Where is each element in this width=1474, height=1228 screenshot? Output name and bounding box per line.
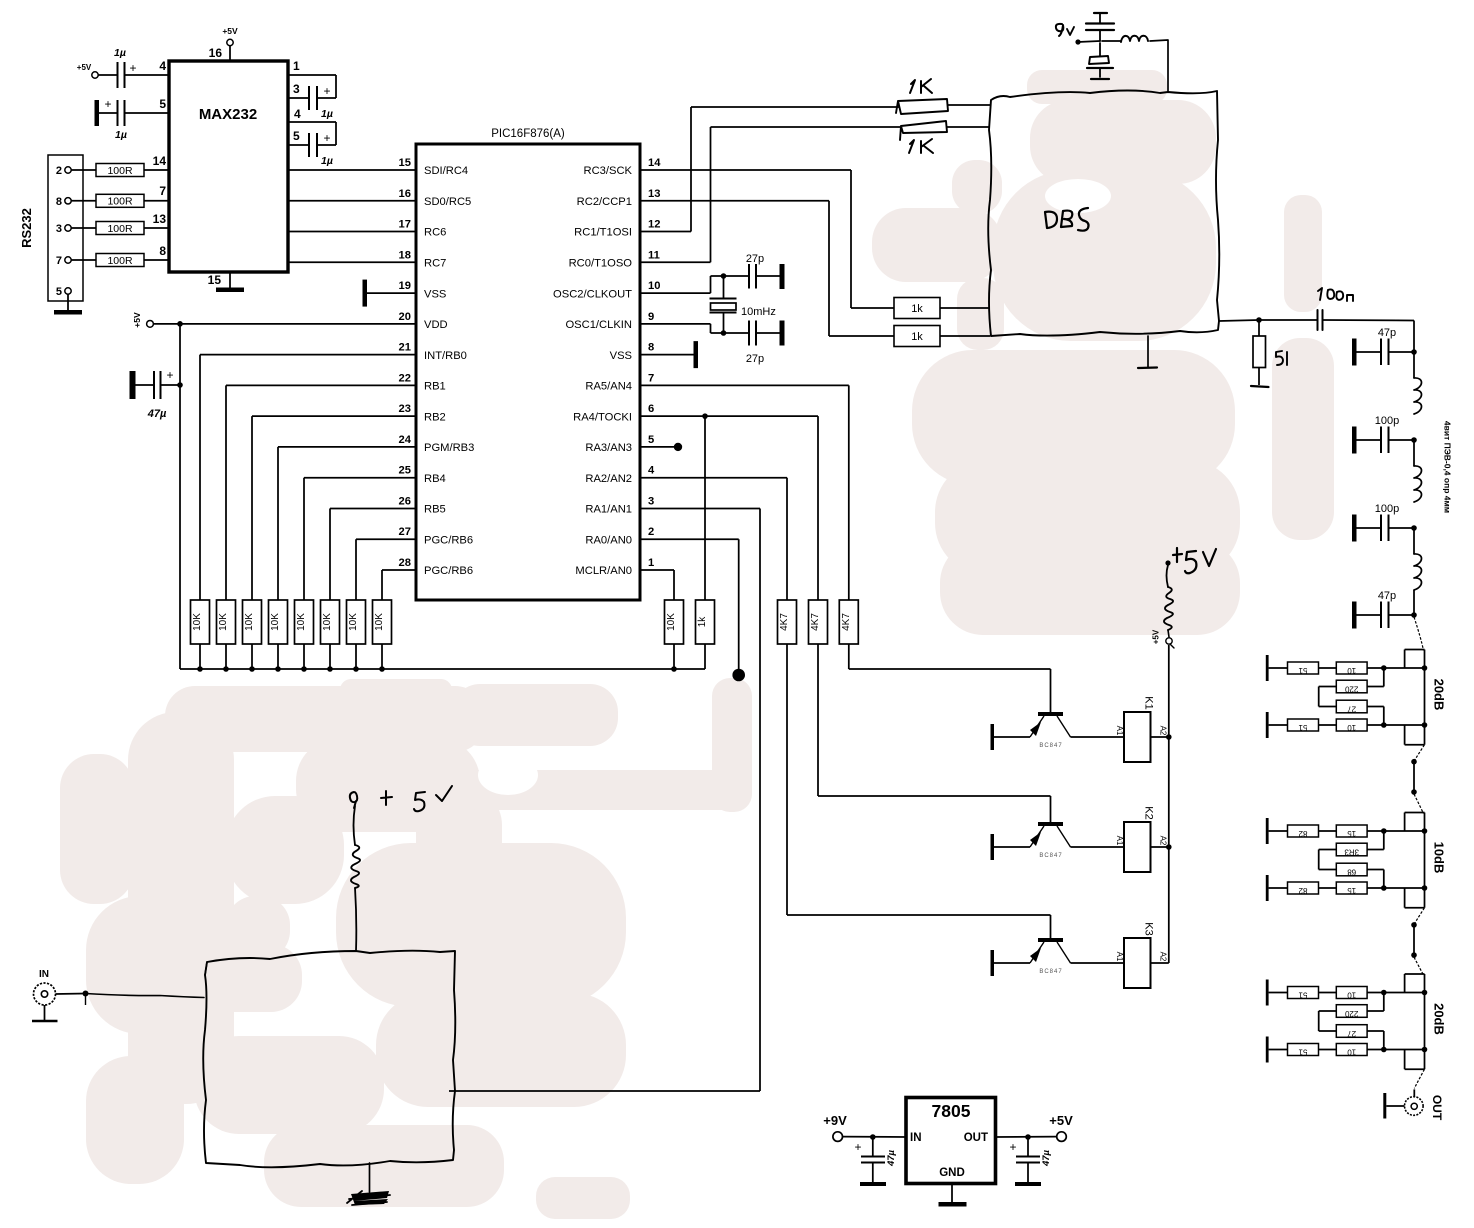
- power +5V hand-drawn label (relay bus): [1152, 548, 1217, 648]
- ground (attenuator 2 top): [1266, 818, 1269, 844]
- svg-text:47p: 47p: [1378, 327, 1396, 339]
- svg-text:1µ: 1µ: [114, 47, 126, 59]
- wire 100R to MAX232: [144, 169, 169, 171]
- node bus junction: [249, 666, 255, 672]
- svg-text:4K7: 4K7: [841, 613, 852, 631]
- wire to +5V bus: [225, 644, 227, 669]
- wire RS232 pin 7: [71, 259, 96, 261]
- resistor 10 (1 top): [1319, 662, 1368, 675]
- power +5V hand label (input module): [350, 786, 452, 811]
- svg-text:7: 7: [648, 372, 654, 384]
- svg-text:68: 68: [1347, 868, 1356, 877]
- wire +5V relay bus: [1168, 645, 1170, 963]
- wire 100R to MAX232: [144, 200, 169, 202]
- svg-text:100R: 100R: [107, 165, 133, 177]
- svg-text:47µ: 47µ: [147, 408, 167, 420]
- resistor 51 (DDS load): [1251, 320, 1287, 387]
- resistor 10K (R8): [373, 600, 392, 644]
- resistor 82 (2 bottom): [1269, 882, 1319, 895]
- IC U1 PIC16F876(A): [399, 128, 662, 600]
- ground (attenuator 1 bottom): [1266, 712, 1269, 738]
- wire PIC pin14 RC3/SCK to 1k: [640, 170, 894, 308]
- wire to +5V bus: [303, 644, 305, 669]
- ground (Q3 emitter): [991, 950, 995, 976]
- svg-text:4: 4: [294, 107, 301, 121]
- svg-text:220: 220: [1344, 685, 1358, 694]
- resistor 10 (1 bottom): [1319, 719, 1368, 732]
- resistor 10K (R4): [269, 600, 288, 644]
- svg-text:A2: A2: [1159, 836, 1168, 846]
- svg-text:A1: A1: [1115, 726, 1124, 736]
- switch blade (section 2 in): [1414, 794, 1424, 814]
- wire 100R to MAX232: [144, 259, 169, 261]
- wire chain to column: [1367, 1047, 1424, 1053]
- capacitor (9v top, hand): [1086, 13, 1114, 41]
- svg-text:4K7: 4K7: [779, 613, 790, 631]
- node bus junction: [223, 666, 229, 672]
- wire to +5V bus: [251, 644, 253, 669]
- wire chain to column: [1367, 990, 1424, 996]
- ground (attenuator 2 bottom): [1266, 875, 1269, 901]
- inductor L1: [1414, 352, 1422, 414]
- svg-text:VDD: VDD: [424, 319, 448, 331]
- svg-text:27: 27: [399, 526, 411, 538]
- svg-text:BC847: BC847: [1039, 969, 1062, 975]
- wire PIC pin10 OSC2: [640, 273, 749, 293]
- wire filter input: [1413, 321, 1415, 353]
- wire K3 A2 to +5V bus: [1151, 962, 1169, 964]
- svg-text:RA0/AN0: RA0/AN0: [585, 534, 632, 546]
- svg-text:10K: 10K: [374, 613, 385, 631]
- svg-text:RS232: RS232: [19, 208, 34, 248]
- wire PIC pin5 RA3/AN3 stub: [640, 443, 682, 451]
- power +5V terminal (7805): [1049, 1113, 1073, 1141]
- wire PIC pin 21: [200, 355, 416, 600]
- wire +5V rail down: [179, 324, 181, 669]
- IC MAX232 U2: [153, 46, 301, 287]
- connector RS232: [19, 155, 83, 301]
- resistor 1K hand-drawn (top): [896, 79, 990, 114]
- node bus junction: [327, 666, 333, 672]
- label 10dB: [1432, 842, 1447, 874]
- svg-text:INT/RB0: INT/RB0: [424, 350, 467, 362]
- svg-text:51: 51: [1298, 723, 1307, 732]
- resistor 51 (1 top): [1269, 662, 1319, 675]
- relay coil K1: [1115, 696, 1168, 762]
- svg-text:51: 51: [1298, 991, 1307, 1000]
- ground (PIC pin19 VSS): [363, 280, 417, 307]
- ground (DDS): [1138, 336, 1157, 368]
- wire to +5V bus: [277, 644, 279, 669]
- svg-text:15: 15: [1347, 886, 1356, 895]
- svg-text:OSC2/CLKOUT: OSC2/CLKOUT: [553, 288, 632, 300]
- svg-text:GND: GND: [939, 1167, 965, 1179]
- wire 100R to MAX232: [144, 227, 169, 229]
- wire PIC pin 22: [226, 385, 416, 600]
- capacitor 27p (bottom): [746, 321, 785, 366]
- svg-text:8: 8: [648, 342, 654, 354]
- svg-text:7: 7: [159, 184, 166, 198]
- wire PIC pin1 MCLR: [640, 570, 674, 600]
- svg-text:OUT: OUT: [1430, 1095, 1444, 1121]
- svg-text:PGC/RB6: PGC/RB6: [424, 534, 473, 546]
- svg-text:20: 20: [399, 311, 411, 323]
- svg-text:PIC16F876(A): PIC16F876(A): [491, 128, 565, 140]
- inductor (9v feed, hand): [1102, 36, 1168, 92]
- svg-text:10: 10: [648, 280, 660, 292]
- svg-text:10K: 10K: [296, 613, 307, 631]
- wire PIC pin6 RA4/TOCKI to 4K7: [640, 416, 818, 600]
- svg-text:10K: 10K: [244, 613, 255, 631]
- wire PIC pin12 RC1 to hand 1K: [640, 107, 899, 232]
- svg-text:+: +: [166, 368, 173, 382]
- svg-text:27p: 27p: [746, 353, 764, 365]
- svg-text:220: 220: [1344, 1009, 1358, 1018]
- ground (Q2 emitter): [991, 834, 995, 860]
- inductor L3: [1414, 528, 1422, 590]
- svg-text:+: +: [323, 131, 330, 145]
- wire series arm links: [1319, 993, 1384, 1050]
- wire K1 A2 to +5V bus: [1151, 734, 1172, 740]
- svg-text:1: 1: [293, 59, 300, 73]
- svg-text:51: 51: [1298, 666, 1307, 675]
- svg-text:RC6: RC6: [424, 227, 446, 239]
- svg-text:16: 16: [399, 188, 411, 200]
- svg-text:25: 25: [399, 465, 411, 477]
- switch blade (section 2 out): [1414, 908, 1424, 924]
- svg-text:3: 3: [293, 82, 300, 96]
- svg-text:OUT: OUT: [964, 1132, 988, 1144]
- svg-text:+9V: +9V: [823, 1113, 847, 1128]
- switch blade (section 3 in): [1414, 957, 1424, 975]
- capacitor C2 1µ (MAX232 pin5): [95, 97, 170, 141]
- svg-text:3R3: 3R3: [1344, 848, 1359, 857]
- svg-text:8: 8: [56, 196, 62, 208]
- wire PIC pin11 RC0 to hand 1K: [640, 127, 900, 262]
- ground (PIC pin8 VSS): [640, 341, 698, 368]
- capacitor 100p (filter node 3): [1352, 503, 1417, 542]
- wire series arm links: [1319, 668, 1384, 725]
- svg-text:20dB: 20dB: [1432, 1003, 1447, 1035]
- IC DDS module (hand-drawn): [988, 91, 1219, 337]
- svg-text:47µ: 47µ: [1041, 1149, 1052, 1167]
- resistor 10K (MCLR): [665, 600, 684, 644]
- wire 1k to DDS: [940, 335, 990, 337]
- svg-text:10: 10: [1347, 1048, 1356, 1057]
- wire bus between sections 1-2: [1411, 759, 1417, 795]
- wire to node 4: [1413, 590, 1415, 615]
- resistor 10K (R2): [217, 600, 236, 644]
- svg-text:10K: 10K: [322, 613, 333, 631]
- wire PIC pin 27: [356, 539, 416, 600]
- svg-text:5: 5: [293, 129, 300, 143]
- ground (OUT): [1383, 1093, 1404, 1119]
- svg-text:47µ: 47µ: [886, 1149, 897, 1167]
- resistor 10 (3 top): [1319, 987, 1368, 1000]
- resistor 27 (3 series): [1336, 1025, 1367, 1038]
- svg-text:82: 82: [1298, 829, 1307, 838]
- wire MAX232 to PIC: [288, 169, 416, 171]
- wire MCLR 10K to bus: [671, 644, 677, 672]
- svg-text:7: 7: [56, 255, 62, 267]
- switch blade (section 1 out): [1414, 745, 1424, 761]
- capacitor 47p (filter node 4): [1352, 590, 1417, 629]
- svg-text:+5V: +5V: [1049, 1113, 1073, 1128]
- wire PIC pin 24: [278, 447, 416, 600]
- transistor Q3 BC847: [1030, 938, 1071, 975]
- svg-text:K1: K1: [1143, 696, 1155, 709]
- svg-text:5: 5: [648, 434, 654, 446]
- wire attenuator 2 column: [1405, 813, 1428, 908]
- relay coil K3: [1115, 922, 1168, 988]
- svg-text:PGC/RB6: PGC/RB6: [424, 565, 473, 577]
- wire 1k to bus: [704, 644, 706, 669]
- node bus junction: [275, 666, 281, 672]
- svg-text:RB2: RB2: [424, 411, 446, 423]
- wire MAX232 to PIC: [288, 231, 416, 233]
- wire PIC pin 28: [382, 570, 416, 600]
- wire Q1 emitter: [993, 736, 1030, 738]
- svg-text:27: 27: [1347, 1029, 1356, 1038]
- wire PIC pin 23: [252, 416, 416, 600]
- svg-text:17: 17: [399, 219, 411, 231]
- svg-text:SD0/RC5: SD0/RC5: [424, 196, 471, 208]
- capacitor C3 1µ (MAX232 pins 1-3): [288, 75, 336, 120]
- wire Q3 emitter: [993, 962, 1030, 964]
- label 20dB: [1432, 679, 1447, 711]
- wire 4K7 to Q3 base: [787, 644, 1051, 938]
- relay coil K2: [1115, 806, 1168, 872]
- resistor 100R (3): [96, 222, 144, 235]
- wire RS232 pin 2: [71, 169, 96, 171]
- svg-text:+5V: +5V: [77, 63, 92, 72]
- svg-text:BC847: BC847: [1039, 853, 1062, 859]
- wire PIC pin4 RA2/AN2 to 4K7: [640, 478, 787, 600]
- resistor 4K7 (K1): [839, 600, 858, 644]
- svg-text:10K: 10K: [270, 613, 281, 631]
- svg-text:A2: A2: [1159, 952, 1168, 962]
- svg-text:SDI/RC4: SDI/RC4: [424, 165, 468, 177]
- svg-text:MAX232: MAX232: [199, 106, 257, 123]
- resistor 4K7 (K3): [778, 600, 797, 644]
- wire PIC pin13 RC2/CCP1 to 1k: [640, 201, 894, 336]
- svg-text:RA1/AN1: RA1/AN1: [585, 504, 632, 516]
- svg-text:K2: K2: [1143, 806, 1155, 819]
- svg-text:100R: 100R: [107, 255, 133, 267]
- switch blade (section 3 out): [1414, 1069, 1424, 1088]
- wire RS232 pin 8: [71, 200, 96, 202]
- resistor 3R3 (2 series): [1336, 843, 1367, 856]
- wire to +5V bus: [329, 644, 331, 669]
- wire 1k to RA4: [702, 413, 708, 600]
- resistor 51 (3 bottom): [1269, 1044, 1319, 1057]
- capacitor (9v bottom, hand): [1087, 43, 1113, 79]
- svg-text:+: +: [323, 84, 330, 98]
- svg-text:82: 82: [1298, 886, 1307, 895]
- svg-text:4: 4: [159, 59, 166, 73]
- svg-text:RC2/CCP1: RC2/CCP1: [577, 196, 632, 208]
- svg-text:2: 2: [648, 526, 654, 538]
- note coil winding text: [1443, 421, 1453, 513]
- svg-text:15: 15: [399, 157, 411, 169]
- resistor 15 (2 bottom): [1319, 882, 1368, 895]
- svg-text:100p: 100p: [1375, 415, 1399, 427]
- capacitor 100п (series, hand): [1259, 288, 1414, 330]
- wire chain to column: [1367, 885, 1424, 891]
- svg-text:4K7: 4K7: [810, 613, 821, 631]
- svg-text:100R: 100R: [107, 196, 133, 208]
- wire to +5V bus: [381, 644, 383, 669]
- svg-text:+5V: +5V: [132, 312, 142, 328]
- svg-text:6: 6: [648, 403, 654, 415]
- svg-text:100p: 100p: [1375, 503, 1399, 515]
- ground (attenuator 1 top): [1266, 655, 1269, 681]
- svg-text:PGM/RB3: PGM/RB3: [424, 442, 474, 454]
- svg-text:47p: 47p: [1378, 590, 1396, 602]
- wire bus between sections 2-3: [1411, 922, 1417, 958]
- wire Q2 collector: [1071, 846, 1125, 848]
- svg-text:RA3/AN3: RA3/AN3: [585, 442, 632, 454]
- svg-text:BC847: BC847: [1039, 743, 1062, 749]
- svg-text:10K: 10K: [348, 613, 359, 631]
- capacitor 47p (filter node 1): [1352, 327, 1417, 366]
- svg-text:5: 5: [159, 97, 166, 111]
- wire IN to module: [56, 991, 205, 1006]
- resistor 220 (3 series): [1336, 1005, 1367, 1018]
- wire MAX232 to PIC: [288, 261, 416, 263]
- svg-text:27p: 27p: [746, 253, 764, 265]
- resistor 51 (3 top): [1269, 987, 1319, 1000]
- svg-text:11: 11: [648, 249, 660, 261]
- capacitor 47µ (input): [854, 1137, 897, 1186]
- wire MAX232 to PIC: [288, 200, 416, 202]
- svg-text:RA4/TOCKI: RA4/TOCKI: [573, 411, 632, 423]
- wire 4K7 to Q2 base: [818, 644, 1051, 822]
- svg-text:+: +: [854, 1140, 861, 1154]
- node VDD junction: [177, 321, 183, 327]
- resistor 1k (RC3 line): [894, 298, 940, 319]
- wire PIC pin2 RA0/AN0 stub: [640, 539, 745, 681]
- resistor 15 (2 top): [1319, 825, 1368, 838]
- svg-text:14: 14: [648, 157, 661, 169]
- wire 4K7 to Q1 base: [849, 644, 1051, 712]
- svg-text:16: 16: [209, 46, 223, 60]
- resistor 51 (1 bottom): [1269, 719, 1319, 732]
- ground (IN): [32, 1005, 58, 1021]
- connector IN: [34, 969, 56, 1005]
- resistor 10K (R5): [295, 600, 314, 644]
- ground (input module, hand): [347, 1163, 390, 1205]
- svg-text:15: 15: [208, 273, 222, 287]
- inductor L2: [1414, 440, 1422, 502]
- svg-text:28: 28: [399, 557, 411, 569]
- resistor 68 (2 series): [1336, 863, 1367, 876]
- wire attenuator 1 column: [1405, 650, 1428, 745]
- svg-text:10: 10: [1347, 723, 1356, 732]
- svg-text:1µ: 1µ: [321, 155, 333, 167]
- transistor Q2 BC847: [1030, 822, 1071, 859]
- power +5V terminal (MAX232 pin16): [222, 26, 238, 61]
- node bus junction: [379, 666, 385, 672]
- wire DDS output: [1219, 317, 1262, 323]
- node bus junction: [353, 666, 359, 672]
- power +9V terminal: [823, 1113, 847, 1141]
- svg-text:20dB: 20dB: [1432, 679, 1447, 711]
- resistor 100R (2): [96, 194, 144, 207]
- ground (attenuator 3 top): [1266, 980, 1269, 1006]
- svg-text:VSS: VSS: [610, 350, 632, 362]
- svg-text:10K: 10K: [192, 613, 203, 631]
- wire to OUT: [1413, 1089, 1415, 1097]
- wire PIC pin3 RA1/AN1 to input module: [449, 508, 760, 1091]
- resistor 27 (1 series): [1336, 700, 1367, 713]
- svg-text:+5V: +5V: [222, 26, 238, 36]
- svg-text:+: +: [129, 61, 136, 75]
- wire PIC pin 25: [304, 478, 416, 600]
- wire Q2 emitter: [993, 846, 1030, 848]
- svg-text:10: 10: [1347, 666, 1356, 675]
- svg-text:19: 19: [399, 280, 411, 292]
- wire 1k to DDS: [940, 307, 990, 309]
- svg-text:14: 14: [153, 154, 167, 168]
- wire RS232 pin 3: [71, 227, 96, 229]
- wire +5V pull-up bus: [180, 668, 705, 670]
- wire PIC pin7 RA5/AN4 to 4K7: [640, 385, 849, 600]
- wire chain to column: [1367, 722, 1424, 728]
- ground (Q1 emitter): [991, 724, 995, 750]
- capacitor 100p (filter node 2): [1352, 415, 1417, 454]
- transistor Q1 BC847: [1030, 712, 1071, 749]
- wire series arm links: [1319, 831, 1384, 888]
- resistor 10 (3 bottom): [1319, 1044, 1368, 1057]
- switch blade (section 1 in): [1414, 617, 1424, 651]
- wire to +5V bus: [199, 644, 201, 669]
- wire PIC pin9 OSC1: [640, 324, 749, 336]
- svg-text:10: 10: [1347, 991, 1356, 1000]
- svg-text:5: 5: [56, 286, 62, 298]
- svg-text:RC0/T1OSO: RC0/T1OSO: [569, 258, 633, 270]
- resistor 1K hand-drawn (bottom): [900, 121, 990, 153]
- node bus junction: [301, 666, 307, 672]
- ground (attenuator 3 bottom): [1266, 1037, 1269, 1063]
- ground (7805 GND): [939, 1184, 967, 1207]
- svg-text:13: 13: [648, 188, 660, 200]
- inductor (input module +5V, hand): [351, 806, 360, 951]
- svg-text:OSC1/CLKIN: OSC1/CLKIN: [565, 319, 632, 331]
- svg-text:VSS: VSS: [424, 288, 446, 300]
- svg-text:+5V: +5V: [1152, 629, 1161, 644]
- svg-text:9: 9: [648, 311, 654, 323]
- svg-text:10dB: 10dB: [1432, 842, 1447, 874]
- resistor 1k (MCLR): [696, 600, 715, 644]
- svg-text:51: 51: [1298, 1048, 1307, 1057]
- svg-text:IN: IN: [39, 969, 49, 980]
- svg-text:3: 3: [56, 223, 62, 235]
- resistor 82 (2 top): [1269, 825, 1319, 838]
- svg-text:RA2/AN2: RA2/AN2: [585, 473, 632, 485]
- svg-text:7805: 7805: [932, 1101, 971, 1121]
- svg-text:24: 24: [399, 434, 412, 446]
- svg-text:1k: 1k: [911, 303, 923, 315]
- wire Q3 collector: [1071, 962, 1125, 964]
- svg-text:A2: A2: [1159, 726, 1168, 736]
- svg-text:K3: K3: [1143, 922, 1155, 935]
- svg-text:10mHz: 10mHz: [741, 306, 776, 318]
- svg-text:8: 8: [159, 244, 166, 258]
- svg-text:21: 21: [399, 342, 411, 354]
- svg-text:IN: IN: [910, 1132, 922, 1144]
- svg-text:23: 23: [399, 403, 411, 415]
